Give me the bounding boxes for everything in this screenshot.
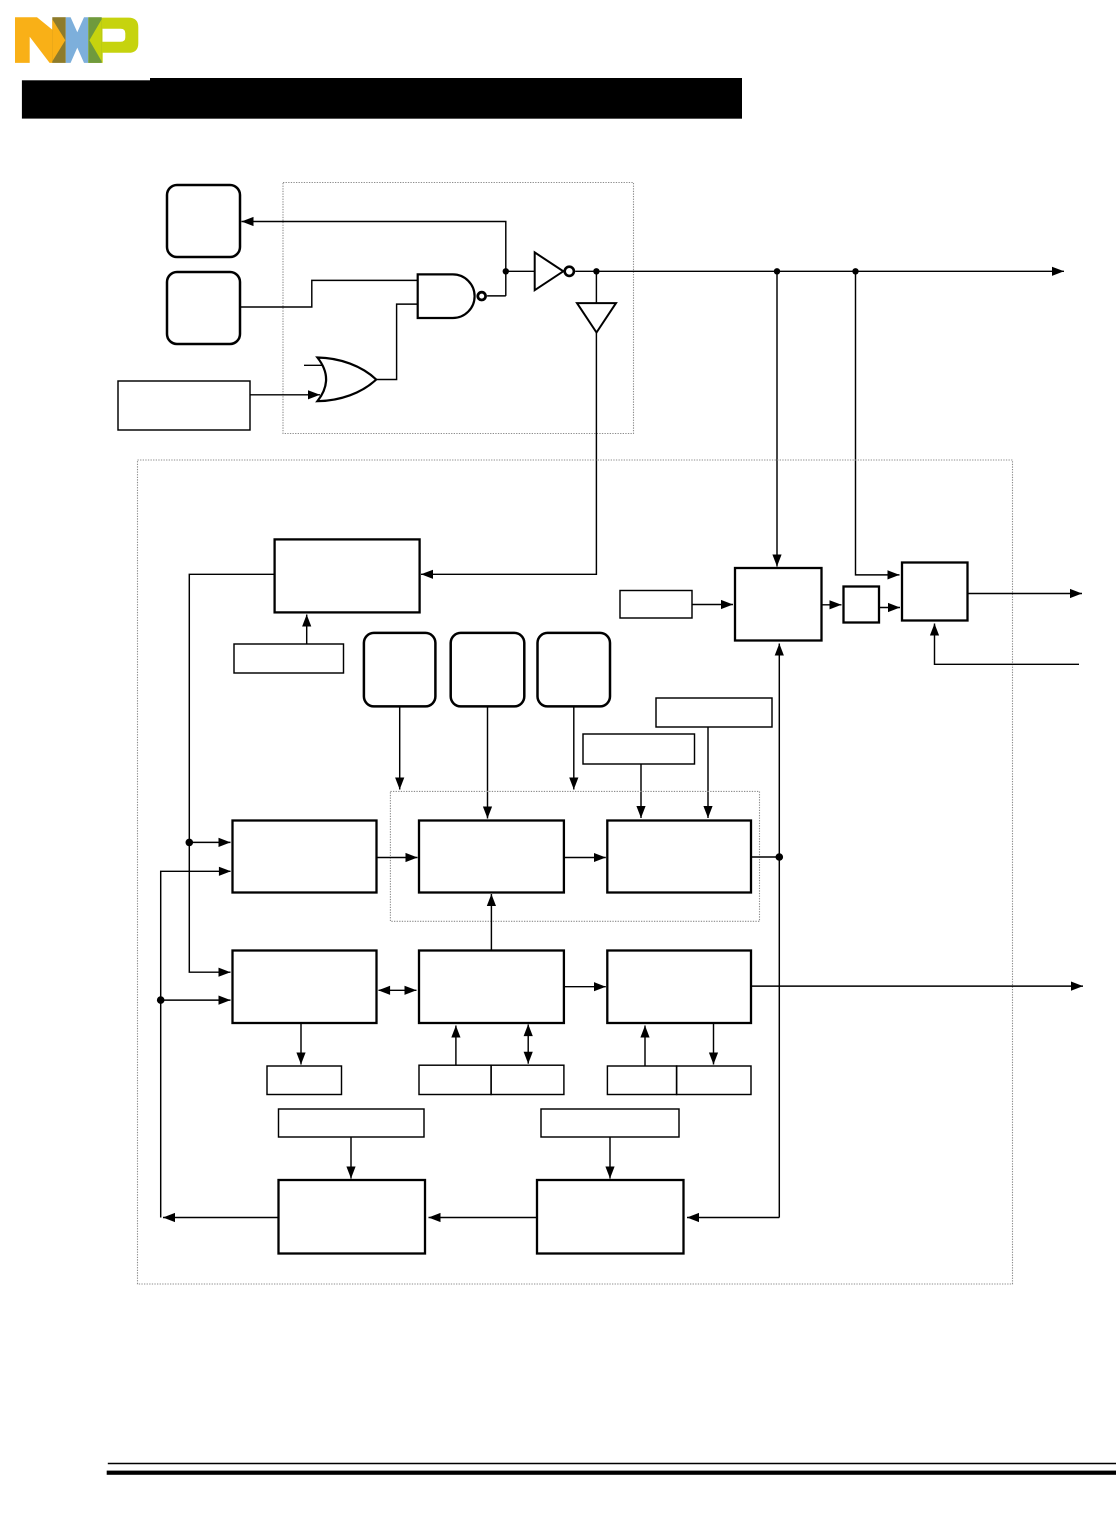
control block M2 <box>419 951 564 1024</box>
pll block <box>735 568 822 641</box>
status rect S2b <box>491 1065 564 1094</box>
wire control to osc <box>306 615 308 645</box>
buffer (down triangle) <box>577 303 616 332</box>
title bar <box>22 78 742 119</box>
status rect S2a <box>419 1065 491 1094</box>
junction dot <box>157 996 165 1004</box>
wire M2 to R2 <box>564 986 606 988</box>
label rect R1 <box>656 698 772 727</box>
label rect W1 <box>279 1109 425 1137</box>
junction dot <box>593 268 599 274</box>
status rect S3b <box>677 1066 751 1095</box>
junction dot <box>776 853 784 861</box>
nand gate <box>418 274 486 318</box>
wire M2 S2b double arrow <box>527 1025 529 1064</box>
wire left bus vertical <box>161 871 231 1217</box>
wire nand output <box>487 295 506 297</box>
monitor block BL <box>279 1180 426 1254</box>
input block box 3 <box>118 381 250 430</box>
wire clock to mux <box>856 271 900 575</box>
divider block M1 <box>419 821 564 893</box>
divider block L1 <box>233 821 377 893</box>
wire pll feedback vertical <box>687 644 779 1218</box>
wire mux output <box>968 593 1083 595</box>
wire S2a up <box>455 1026 457 1066</box>
rounded pin box B <box>451 633 525 707</box>
wire pll to divider <box>822 604 842 606</box>
wire feedback to pin box 1 <box>242 222 506 296</box>
monitor block BR <box>537 1180 684 1254</box>
junction dot <box>852 268 858 274</box>
wire R1 down <box>707 727 709 818</box>
status rect S3a <box>607 1066 676 1095</box>
rounded pin box 2 <box>167 272 240 344</box>
wire R1 to feedback node <box>751 856 779 858</box>
status rect S1 <box>267 1066 342 1095</box>
divider block R1 <box>607 821 751 893</box>
wire rect to pll <box>692 604 733 606</box>
wire to buffer <box>595 271 597 303</box>
wire M2 up to M1 <box>490 894 492 951</box>
wire pin A down <box>399 706 401 789</box>
wire S3a up <box>644 1026 646 1067</box>
wire R2 down <box>640 764 642 818</box>
mux block <box>902 563 968 621</box>
wire L2 M2 double arrow <box>379 989 417 991</box>
junction dot <box>503 268 509 274</box>
wire clock to pll top <box>776 271 778 566</box>
footer thick rule <box>107 1471 1116 1475</box>
wire osc left distribution <box>189 574 274 972</box>
label rect R2 <box>583 734 695 764</box>
inverter <box>535 252 574 290</box>
wire divider to mux <box>879 607 900 609</box>
wire or gate top input stub <box>304 364 322 366</box>
wire W2 down <box>609 1137 611 1179</box>
loop dashed boundary <box>390 791 759 921</box>
osc block <box>275 539 420 612</box>
wire main clock line <box>575 270 1064 272</box>
wire M1 to R1 <box>564 857 606 859</box>
or gate <box>317 358 376 402</box>
wire or output to nand input <box>376 304 418 379</box>
junction dot <box>774 268 780 274</box>
wire pin B down <box>487 706 489 818</box>
footer thin rule <box>108 1463 1116 1465</box>
oscillator module dashed boundary <box>283 183 634 434</box>
wire L2 down <box>300 1023 302 1065</box>
wire buffer output to osc block <box>421 333 596 575</box>
main module dashed boundary <box>138 460 1013 1284</box>
wire pin C down <box>573 706 575 789</box>
wire BL to left bus <box>163 1217 279 1219</box>
control rect under osc <box>234 644 344 673</box>
control block R2 <box>607 951 751 1024</box>
wire BR to BL <box>429 1217 538 1219</box>
rounded pin box A <box>364 633 436 707</box>
wire L1 to M1 <box>377 857 418 859</box>
wire R2 down to S3b <box>713 1023 715 1065</box>
wire junction to inverter input <box>506 270 535 272</box>
pll input rect <box>620 591 692 619</box>
rounded pin box C <box>538 633 611 707</box>
rounded pin box 1 <box>167 185 240 257</box>
junction dot <box>186 839 194 847</box>
wire pin box 2 to nand input <box>240 280 418 307</box>
wire box 3 to or gate <box>250 394 320 396</box>
wire W1 down <box>350 1137 352 1179</box>
control block L2 <box>233 951 377 1024</box>
wire mux select input <box>935 624 1080 665</box>
wire R2 output <box>751 985 1083 987</box>
NXP logo <box>15 17 138 63</box>
wire branch to divider row1 <box>189 841 230 843</box>
divider square <box>844 587 880 623</box>
label rect W2 <box>541 1109 679 1137</box>
